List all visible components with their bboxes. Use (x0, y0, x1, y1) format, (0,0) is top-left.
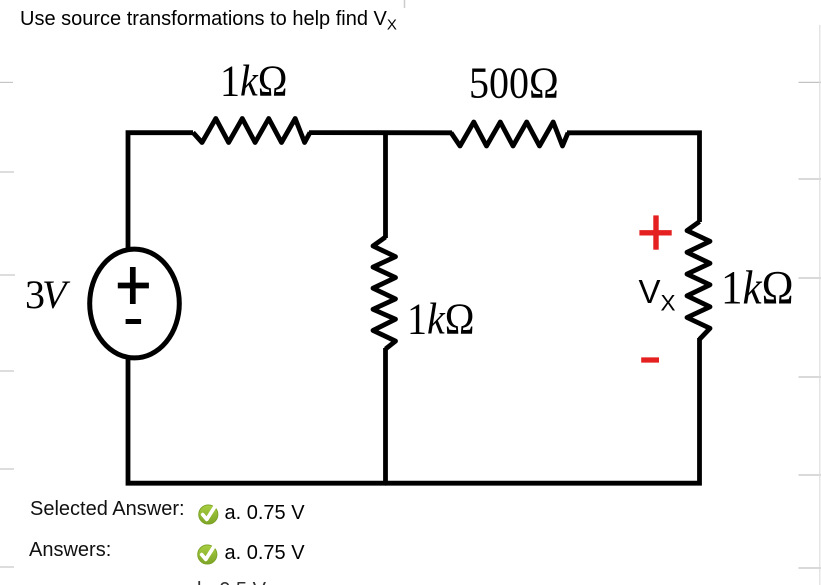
label: Vx node voltage (639, 273, 676, 317)
voltage source V1 minus sign (126, 319, 142, 324)
wire: bottom-right corner (bottom wire to resistor R4 bottom) (385, 338, 700, 483)
resistor R4 1kOhm (right vertical zigzag) (687, 222, 710, 340)
text: answer a row 1 (225, 502, 305, 525)
wire: top-right corner down to resistor R4 (567, 133, 700, 222)
text: answer a row 2 (225, 542, 305, 565)
icon: green check circle row 2 (197, 544, 218, 565)
resistor R3 1kOhm (middle vertical zigzag) (373, 237, 396, 349)
label: 3V for source V1 (25, 271, 63, 318)
wire: left-top corner (source top to node A via resistor R1 start) (128, 133, 193, 251)
wire: top middle segment between R1 and R2 (node A junction) (309, 130, 452, 135)
red plus polarity mark for Vx (639, 215, 671, 249)
label: 1kOhm for R3 (407, 297, 475, 344)
text: Selected Answer label (30, 498, 185, 521)
voltage source V1 plus sign (118, 267, 149, 304)
label: 500 Ohm for R2 (469, 61, 559, 108)
voltage source V1 (3V) ellipse (90, 249, 180, 358)
text: answer b row 3 (cut off at bottom) (197, 579, 266, 585)
red minus polarity mark for Vx (641, 357, 659, 362)
title: Use source transformations to help find Vx (20, 8, 397, 34)
icon: green check circle row 1 (198, 504, 219, 525)
wire: middle stub from top wire down to resistor R3 (383, 131, 388, 239)
resistor R1 1kOhm (top-left horizontal zigzag) (193, 119, 310, 143)
wire: left-bottom corner (source bottom to bottom wire) (128, 357, 386, 484)
label: 1kOhm for R1 (220, 59, 288, 106)
text: Answers label (29, 539, 111, 562)
label: 1kOhm for R4 (721, 266, 794, 315)
wire: middle stub from R3 down to bottom wire (383, 348, 388, 482)
resistor R2 500Ohm (top-right horizontal zigzag) (451, 122, 568, 146)
